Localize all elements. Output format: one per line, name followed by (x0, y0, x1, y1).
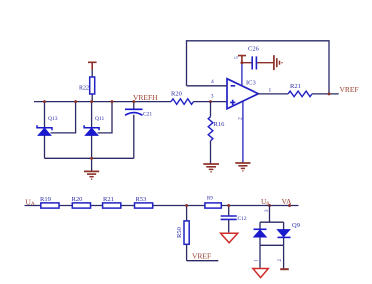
wire Q11 collector loop (98, 102, 113, 133)
wire feedback loop (187, 41, 330, 94)
svg-text:Q13: Q13 (48, 116, 58, 122)
capacitor C21 (125, 102, 152, 159)
svg-text:R19: R19 (40, 196, 51, 203)
junction dot U8 (268, 204, 271, 207)
svg-text:R20: R20 (72, 196, 83, 203)
wire R21 to VREF (312, 93, 339, 95)
svg-text:1: 1 (269, 88, 272, 94)
power bar Q9 pin2 (280, 268, 289, 270)
transistor Q9 (dual diode) (254, 206, 300, 246)
junction dot C12 (227, 204, 230, 207)
wire top rail VREFH (34, 101, 171, 103)
svg-text:1: 1 (255, 259, 260, 262)
resistor R53 (135, 196, 153, 208)
wire Q9 pin2 (283, 245, 285, 268)
junction dot C26 power (240, 61, 243, 64)
junction dot Q13 loop top (74, 100, 77, 103)
svg-text:R9: R9 (207, 197, 213, 202)
wire R20 to opamp pin3 (194, 101, 228, 103)
resistor R9 (205, 197, 221, 209)
resistor R20 (bottom) (72, 196, 91, 208)
svg-text:Q9: Q9 (292, 222, 300, 229)
power bar top of R22 (88, 62, 97, 70)
svg-text:C21: C21 (143, 112, 152, 118)
op-amp IC3 (227, 79, 258, 109)
resistor R16 (208, 102, 225, 164)
ground under R16 (203, 164, 219, 172)
svg-text:C26: C26 (248, 46, 260, 53)
svg-text:3: 3 (211, 94, 214, 100)
junction dot R16 top (209, 100, 212, 103)
ground C26 (rotated) (274, 55, 282, 70)
svg-text:R22: R22 (79, 86, 89, 92)
capacitor C12 (221, 206, 247, 233)
transistor Q11 (zener-connected) (84, 102, 104, 159)
power bar above C26 junction (238, 56, 246, 64)
svg-text:R50: R50 (176, 227, 183, 238)
svg-text:2: 2 (238, 117, 244, 120)
wire VREF bottom (187, 260, 219, 262)
svg-text:4: 4 (211, 79, 214, 85)
resistor R22 (79, 70, 95, 102)
svg-text:5: 5 (234, 56, 240, 59)
wire opamp pin2 (power) (242, 101, 244, 162)
junction dot feedback/output (328, 92, 331, 95)
capacitor C26 (242, 46, 273, 70)
junction dot ground stem (90, 157, 93, 160)
wire Q13 collector loop (51, 102, 76, 133)
resistor R21 (288, 83, 312, 97)
svg-text:IC3: IC3 (246, 80, 256, 87)
svg-text:R16: R16 (214, 121, 226, 128)
ground under pin2 (235, 163, 250, 171)
svg-text:VREF: VREF (192, 252, 211, 261)
svg-text:2: 2 (278, 259, 283, 262)
wire bottom row (25, 205, 299, 207)
svg-text:VREF: VREF (340, 85, 359, 94)
wire opamp output (258, 93, 288, 95)
resistor R50 (176, 206, 189, 261)
junction dot VA (288, 204, 291, 207)
ground C12 (open triangle) (221, 233, 238, 242)
junction dot Q13 top (43, 100, 46, 103)
ground main (84, 171, 99, 179)
svg-text:C12: C12 (238, 216, 247, 222)
wire Q9 pin1 (259, 245, 261, 267)
wire bottom rail (45, 157, 134, 159)
svg-text:VREFH: VREFH (133, 93, 158, 102)
svg-text:Q11: Q11 (95, 116, 105, 122)
wire opamp pin4 input (187, 85, 228, 87)
svg-text:R21: R21 (103, 196, 114, 203)
svg-text:R53: R53 (136, 196, 147, 203)
resistor R19 (40, 196, 59, 208)
junction dot R22/Q11 top (90, 100, 93, 103)
resistor R20 (171, 91, 194, 105)
resistor R21 (bottom) (103, 196, 121, 208)
junction dot Q11 loop top (111, 100, 114, 103)
ground Q9 (open triangle) (253, 269, 268, 278)
junction dot C21 top (132, 100, 135, 103)
svg-text:R20: R20 (171, 91, 182, 98)
junction dot R50 (185, 204, 188, 207)
transistor Q13 (zener-connected) (37, 102, 58, 159)
wire opamp pin5 (power) (241, 64, 243, 86)
wire ground stem (91, 158, 93, 171)
svg-text:R21: R21 (290, 83, 301, 90)
